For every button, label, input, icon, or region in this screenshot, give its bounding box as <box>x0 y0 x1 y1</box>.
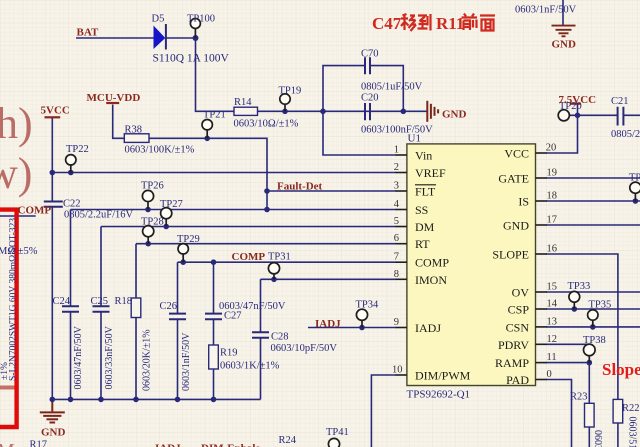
wire PDRV pin12 <box>547 343 590 345</box>
hanzi yi <box>401 14 416 31</box>
wire SS row to pin4 <box>71 209 397 211</box>
ground symbol right-facing near C20 <box>427 101 438 122</box>
wire 1nF cap to GND top right <box>562 0 564 26</box>
svg-text:TP31: TP31 <box>268 252 291 263</box>
svg-text:M: M <box>0 440 15 447</box>
wire TP100 node down to R14 row <box>196 38 234 111</box>
svg-text:PDRV: PDRV <box>498 338 529 352</box>
wire IADJ row to pin9 <box>308 327 396 329</box>
wire C21 right <box>624 114 640 116</box>
svg-text:VREF: VREF <box>415 166 446 180</box>
wire diode cathode to TP100 node <box>166 37 196 39</box>
svg-text:6: 6 <box>394 233 399 244</box>
svg-text:7.5VCC: 7.5VCC <box>559 94 597 106</box>
test point TP26 <box>142 190 153 209</box>
wire 5VCC stem <box>51 118 53 173</box>
ground bus <box>52 398 260 400</box>
pin 3 FLT overline <box>415 184 436 186</box>
svg-text:C20: C20 <box>361 93 379 104</box>
svg-text:TP100: TP100 <box>187 14 215 25</box>
svg-text:PAD: PAD <box>506 373 529 387</box>
svg-text:SLOPE: SLOPE <box>492 248 529 262</box>
svg-text:C26: C26 <box>160 301 178 312</box>
svg-text:GND: GND <box>552 39 577 51</box>
svg-text:Fault-Det: Fault-Det <box>277 181 323 193</box>
wire pin10 DIM/PWM riser <box>371 375 396 447</box>
wire MCU-VDD stem to R38 <box>113 105 125 139</box>
wire C22 lower stem <box>51 207 53 400</box>
wire CSP pin14 <box>547 308 640 310</box>
wire R19 lower stem <box>213 369 215 399</box>
resistor R22 <box>613 399 623 423</box>
hanzi dao <box>418 14 431 31</box>
test point TP35 <box>588 310 598 327</box>
test point TP27 <box>161 208 172 227</box>
svg-text:C22: C22 <box>63 199 81 210</box>
svg-text:0603/100K/±1%: 0603/100K/±1% <box>125 145 195 156</box>
wire RAMP node to R23 <box>588 363 590 404</box>
svg-text:TP26: TP26 <box>141 181 164 192</box>
test point TP38 <box>584 344 596 363</box>
power bar 7.5VCC <box>570 103 581 105</box>
svg-text:R38: R38 <box>125 125 143 136</box>
pin names left <box>415 149 471 383</box>
svg-text:IADJ: IADJ <box>315 318 341 330</box>
svg-text:R23: R23 <box>570 392 588 403</box>
svg-text:0603/51K/±1%: 0603/51K/±1% <box>592 430 603 447</box>
svg-text:R17: R17 <box>30 440 48 447</box>
wire R14 right to GND <box>258 110 428 112</box>
capacitor C20 plates <box>365 103 370 120</box>
wire Fault-Det to pin3 <box>267 190 396 192</box>
svg-text:0603/33nF/50V: 0603/33nF/50V <box>104 325 115 389</box>
wire R22 lower stem <box>617 423 619 447</box>
wire C27 riser <box>213 262 215 313</box>
wire IMON row to pin8 <box>261 278 397 280</box>
svg-text:10: 10 <box>392 365 403 376</box>
wire C26 riser <box>177 262 179 313</box>
svg-text:±1%: ±1% <box>0 362 10 380</box>
svg-text:3: 3 <box>394 181 399 192</box>
wire C28 to ground bus <box>260 338 262 400</box>
svg-text:RT: RT <box>415 237 430 251</box>
wire COMP row to pin7 <box>178 261 397 263</box>
svg-text:RAMP: RAMP <box>495 356 529 370</box>
svg-text:16: 16 <box>547 244 558 255</box>
svg-text:DIM-Enbale: DIM-Enbale <box>201 443 260 447</box>
pin stubs left <box>396 155 407 375</box>
svg-text:GND: GND <box>41 427 66 439</box>
svg-text:TP29: TP29 <box>177 234 200 245</box>
wire node to pin1 Vin <box>323 111 396 155</box>
wire GATE pin19 <box>547 177 640 179</box>
resistor R18 <box>131 298 141 318</box>
wire CSN pin13 <box>547 326 640 328</box>
wire C27 to R19 <box>213 319 215 345</box>
capacitor C26 plates <box>169 314 186 320</box>
svg-text:S110Q 1A 100V: S110Q 1A 100V <box>153 53 230 65</box>
svg-text:IMON: IMON <box>415 273 447 287</box>
watermark fragment bottom <box>0 386 17 390</box>
capacitor C28 plates <box>252 332 269 338</box>
test point TP34 <box>356 309 367 327</box>
resistor R23 <box>585 403 595 427</box>
svg-text:R18: R18 <box>115 296 133 307</box>
wire C24 lower stem <box>70 312 72 400</box>
svg-text:R14: R14 <box>234 97 252 108</box>
op-amp U1 TPS92692-Q1 body <box>407 144 536 386</box>
svg-text:0603/20K/±1%: 0603/20K/±1% <box>142 329 153 391</box>
pin numbers right <box>546 143 558 381</box>
svg-text:TP22: TP22 <box>66 144 89 155</box>
svg-text:S-L2N7002SWT1G 60V 380mΩ SOT-3: S-L2N7002SWT1G 60V 380mΩ SOT-323 <box>9 218 19 381</box>
hanzi mian <box>480 16 495 31</box>
svg-text:Slope: Slope <box>602 360 640 379</box>
svg-text:R19: R19 <box>220 348 238 359</box>
svg-text:COMP: COMP <box>415 256 449 270</box>
wire OV pin15 <box>547 291 640 293</box>
wire C26 lower stem <box>177 319 179 399</box>
svg-text:GATE: GATE <box>498 172 529 186</box>
svg-text:20: 20 <box>546 143 557 154</box>
wire VREF row to pin2 <box>52 172 396 174</box>
test point TP29 <box>178 244 188 263</box>
wire R18 riser <box>135 244 137 298</box>
wire RAMP pin11 <box>547 362 590 364</box>
svg-text:5: 5 <box>394 216 399 227</box>
wire SLOPE pin16 to R22 <box>547 254 618 399</box>
test point TP100 <box>190 19 200 39</box>
test point TP22 <box>66 155 76 173</box>
test point TP33 <box>569 291 580 309</box>
svg-text:w): w) <box>0 149 32 198</box>
svg-text:TP35: TP35 <box>589 300 612 311</box>
svg-text:TP41: TP41 <box>326 427 349 438</box>
wire C25 riser <box>100 227 102 307</box>
svg-text:TP28: TP28 <box>141 217 164 228</box>
svg-text:IADJ: IADJ <box>155 443 181 447</box>
wire PAD pin0 <box>547 380 572 447</box>
hanzi qian <box>462 14 478 31</box>
pin numbers left <box>392 145 403 376</box>
svg-text:19: 19 <box>547 168 558 179</box>
svg-text:15: 15 <box>547 282 558 293</box>
test point TP28 <box>143 226 154 244</box>
svg-text:C27: C27 <box>224 311 242 322</box>
wire BAT to diode <box>76 37 154 39</box>
svg-text:2: 2 <box>394 162 399 173</box>
resistor R38 <box>124 134 149 143</box>
svg-text:11: 11 <box>547 352 557 363</box>
wire R38 right to TP21 corner <box>149 138 267 209</box>
svg-text:D5: D5 <box>152 14 165 25</box>
wire GND pin17 <box>547 224 640 226</box>
svg-text:R22: R22 <box>622 403 640 414</box>
svg-text:13: 13 <box>547 316 558 327</box>
svg-text:0603/47nF/50V: 0603/47nF/50V <box>219 301 286 312</box>
pin stubs right <box>536 153 548 380</box>
svg-text:0603/100nF/50V: 0603/100nF/50V <box>361 125 433 136</box>
test point TP20 <box>558 110 569 121</box>
test point TP19 <box>280 94 290 112</box>
svg-text:FLT: FLT <box>415 185 436 199</box>
svg-text:7: 7 <box>394 252 399 263</box>
svg-text:0603/10Ω/±1%: 0603/10Ω/±1% <box>234 119 299 130</box>
svg-text:17: 17 <box>547 215 558 226</box>
svg-text:C25: C25 <box>91 296 109 307</box>
svg-text:4: 4 <box>394 199 400 210</box>
svg-text:12: 12 <box>547 334 558 345</box>
svg-text:TP33: TP33 <box>568 281 591 292</box>
svg-text:C21: C21 <box>611 96 629 107</box>
svg-text:TP36: TP36 <box>629 173 640 184</box>
svg-text:MCU-VDD: MCU-VDD <box>87 92 141 104</box>
wire TP20 row to C21 <box>569 114 617 116</box>
svg-text:18: 18 <box>547 191 558 202</box>
wire IS pin18 <box>547 200 640 202</box>
svg-text:C47: C47 <box>372 14 402 33</box>
ground symbol bottom left <box>40 399 65 422</box>
wire DM row to pin5 <box>101 226 396 228</box>
wire C25 lower stem <box>100 312 102 400</box>
svg-text:GND: GND <box>503 219 529 233</box>
svg-text:GND: GND <box>442 109 467 121</box>
svg-text:R24: R24 <box>279 435 297 446</box>
power bar MCU-VDD <box>106 102 119 104</box>
pin names right <box>492 147 529 388</box>
svg-text:CSN: CSN <box>506 320 530 334</box>
svg-text:R11: R11 <box>436 14 464 33</box>
ground symbol top right <box>552 26 576 37</box>
red highlight box left <box>0 210 17 427</box>
svg-text:IS: IS <box>518 195 529 209</box>
svg-text:0805/1uF/50V: 0805/1uF/50V <box>361 82 423 93</box>
capacitor C70 plates <box>365 57 370 74</box>
svg-text:h): h) <box>0 99 33 148</box>
test point TP31 <box>268 263 279 280</box>
wire R23 lower stem <box>588 427 590 447</box>
test point TP36 right edge <box>630 182 640 201</box>
svg-text:TP38: TP38 <box>583 335 606 346</box>
svg-text:DIM/PWM: DIM/PWM <box>415 369 471 383</box>
svg-text:0603/1nF/50V: 0603/1nF/50V <box>181 332 192 391</box>
svg-text:C28: C28 <box>271 332 289 343</box>
svg-text:14: 14 <box>547 299 558 310</box>
red annotation C47 move to R11 front <box>372 14 495 34</box>
svg-text:C70: C70 <box>361 49 379 60</box>
capacitor C25 plates <box>93 306 110 312</box>
svg-text:8: 8 <box>394 269 399 280</box>
svg-text:COMP: COMP <box>232 251 266 263</box>
svg-text:MΩ ±5%: MΩ ±5% <box>0 246 38 257</box>
svg-text:TP21: TP21 <box>203 110 226 121</box>
svg-text:0603/1nF/50V: 0603/1nF/50V <box>515 5 577 16</box>
svg-text:0805/2.2uF/16V: 0805/2.2uF/16V <box>611 129 640 140</box>
wire RT row to pin6 <box>136 243 396 245</box>
svg-text:0603/10pF/50V: 0603/10pF/50V <box>271 343 338 354</box>
wire COMP stub bottom-left <box>0 215 36 217</box>
wire R18 lower stem <box>135 318 137 400</box>
svg-text:COMP: COMP <box>18 205 52 217</box>
svg-text:5VCC: 5VCC <box>41 105 70 117</box>
capacitor C21 plates <box>618 107 624 126</box>
svg-text:BAT: BAT <box>77 27 99 39</box>
test point TP21 <box>202 120 212 139</box>
capacitor C27 plates <box>205 314 222 320</box>
test point TP41 <box>328 438 339 447</box>
svg-text:0603/51K/±1%: 0603/51K/±1% <box>627 417 638 447</box>
svg-text:1: 1 <box>394 145 399 156</box>
wire C24 riser <box>70 210 72 307</box>
resistor R19 <box>209 345 219 369</box>
svg-text:TP19: TP19 <box>279 86 302 97</box>
svg-text:IADJ: IADJ <box>415 321 441 335</box>
diode D5 <box>154 24 166 50</box>
resistor R14 <box>234 107 258 115</box>
wire 7.5VCC stem <box>577 105 579 116</box>
svg-text:OV: OV <box>512 286 530 300</box>
svg-text:VCC: VCC <box>504 147 529 161</box>
svg-text:DM: DM <box>415 220 435 234</box>
capacitor C22 plates <box>44 202 63 207</box>
svg-text:CSP: CSP <box>508 303 530 317</box>
wire C70 loop right riser <box>370 66 403 112</box>
wire C28 riser <box>260 279 262 332</box>
svg-text:TP27: TP27 <box>160 199 183 210</box>
capacitor C24 plates <box>62 306 79 312</box>
svg-text:0603/47nF/50V: 0603/47nF/50V <box>73 325 84 389</box>
svg-text:0603/1K/±1%: 0603/1K/±1% <box>220 361 280 372</box>
wire C70 loop left riser <box>323 66 365 112</box>
svg-text:0805/2.2uF/16V: 0805/2.2uF/16V <box>64 210 134 221</box>
svg-text:Vin: Vin <box>415 149 432 163</box>
svg-text:TP34: TP34 <box>356 300 380 311</box>
svg-text:C24: C24 <box>53 296 71 307</box>
svg-text:TPS92692-Q1: TPS92692-Q1 <box>407 389 471 401</box>
wire TP20 node to pin20 VCC <box>547 115 578 153</box>
svg-text:SS: SS <box>415 203 428 217</box>
svg-text:0: 0 <box>547 369 552 380</box>
svg-text:9: 9 <box>394 317 399 328</box>
wire C22 riser <box>51 173 53 202</box>
power bar 5VCC <box>45 116 61 118</box>
